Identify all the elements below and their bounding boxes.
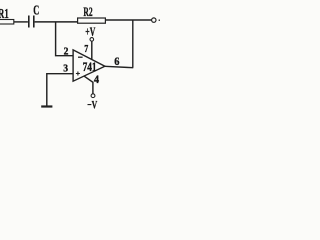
svg-text:R2: R2 [83,5,92,19]
pin 7 terminal circle [90,38,94,42]
pin 4 wire [84,76,93,94]
svg-text:6: 6 [114,56,119,68]
svg-text:R1: R1 [0,6,9,21]
resistor R1 [0,20,14,25]
svg-text:−V: −V [87,97,97,110]
right edge clipped mark [159,19,161,21]
output terminal circle [152,18,156,22]
svg-text:7: 7 [84,44,88,55]
svg-text:741: 741 [83,60,97,74]
capacitor C [29,16,34,28]
pin 4 terminal circle [91,94,95,98]
svg-text:C: C [33,2,39,17]
svg-text:3: 3 [63,64,68,75]
wire junction to pin 2 [56,22,74,56]
wire op-amp output [105,66,134,67]
pin 7 wire [91,41,93,60]
ground [41,105,52,107]
plus input symbol [76,72,80,76]
resistor R2 [78,18,106,23]
wire R2 to output terminal [105,19,151,21]
wire R1 to C [14,21,28,23]
svg-text:2: 2 [64,46,69,57]
svg-text:+V: +V [85,25,95,39]
wire feedback vertical [132,20,134,67]
op-amp U1 triangle [73,50,105,81]
wire C to R2 [35,21,78,23]
svg-text:4: 4 [94,74,99,86]
minus input symbol [78,56,83,58]
wire pin 3 [47,74,73,106]
